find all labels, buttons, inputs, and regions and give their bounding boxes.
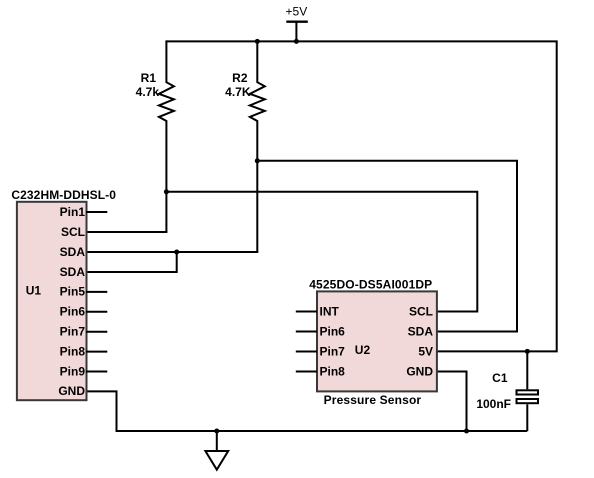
resistor R2 4.7K (with leads) [225, 40, 265, 252]
svg-text:Pin7: Pin7 [320, 344, 346, 358]
svg-text:SCL: SCL [61, 225, 85, 239]
IC U2 4525DO-DS5AI001DP pressure sensor [309, 278, 437, 407]
wire: U1 SCL pin to R1 bottom [86, 231, 167, 233]
node: junction second SDA tap [174, 250, 179, 255]
resistor R1 4.7k (with leads) [136, 40, 174, 232]
pin Pin8 (U2) [296, 364, 345, 378]
svg-text:Pin6: Pin6 [60, 305, 86, 319]
wire: +5V rail from R1 top across to right bus, down and into U2 5V pin [166, 41, 556, 351]
svg-text:Pin5: Pin5 [60, 285, 86, 299]
power symbol +5V [286, 5, 308, 42]
node: junction R2 top on rail [255, 39, 260, 44]
svg-text:Pin6: Pin6 [320, 324, 346, 338]
svg-text:+5V: +5V [286, 5, 308, 19]
svg-text:4.7K: 4.7K [225, 85, 251, 99]
svg-text:Pin8: Pin8 [320, 364, 346, 378]
IC U1 C232HM-DDHSL-0 [11, 188, 116, 400]
svg-text:C232HM-DDHSL-0: C232HM-DDHSL-0 [11, 188, 116, 202]
ground [205, 431, 228, 470]
svg-text:Pin1: Pin1 [60, 205, 86, 219]
svg-text:Pressure Sensor: Pressure Sensor [324, 393, 422, 407]
wire: U2 GND pin down to ground bus [437, 372, 467, 433]
pin Pin9 (U1) [60, 364, 108, 378]
capacitor C1 100nF [476, 351, 538, 431]
node: junction C1 top tap on 5V wire [525, 349, 530, 354]
node: junction +5V stub on rail [294, 39, 299, 44]
wire: SDA branch from R2 junction across and down to U2 SDA pin [257, 161, 517, 332]
svg-text:U1: U1 [26, 284, 42, 298]
pin Pin8 (U1) [60, 344, 108, 358]
svg-text:4.7k: 4.7k [136, 85, 160, 99]
pin Pin6 (U1) [60, 305, 108, 319]
svg-text:5V: 5V [418, 344, 433, 358]
svg-text:SDA: SDA [60, 265, 86, 279]
svg-text:SDA: SDA [408, 324, 434, 338]
pin Pin1 (U1) [60, 205, 108, 219]
svg-text:100nF: 100nF [476, 397, 511, 411]
pin INT (U2) [296, 304, 340, 318]
node: junction ground tap on ground bus [214, 429, 219, 434]
svg-text:Pin8: Pin8 [60, 344, 86, 358]
svg-text:R2: R2 [232, 71, 248, 85]
pin Pin7 (U2) [296, 344, 345, 358]
node: junction U2 GND on ground bus [464, 429, 469, 434]
svg-text:SCL: SCL [409, 304, 433, 318]
pin Pin5 (U1) [60, 285, 108, 299]
svg-text:GND: GND [58, 384, 85, 398]
wire: U1 second SDA pin up to SDA net [86, 251, 177, 272]
svg-text:Pin9: Pin9 [60, 364, 86, 378]
wire: ground bus from U1 GND pin down and across to C1 bottom [86, 391, 527, 431]
svg-text:U2: U2 [355, 343, 371, 357]
svg-text:INT: INT [320, 304, 340, 318]
node: junction on R2 leg at SDA branch [255, 158, 260, 163]
wire: SCL branch from R1 junction across and down to U2 SCL pin [166, 192, 477, 312]
svg-text:C1: C1 [492, 371, 508, 385]
svg-text:R1: R1 [141, 71, 157, 85]
pin Pin6 (U2) [296, 324, 345, 338]
node: junction on R1 leg at SCL branch [164, 189, 169, 194]
wire: U1 SDA pin to R2 bottom [86, 251, 258, 253]
svg-text:SDA: SDA [60, 245, 86, 259]
svg-text:4525DO-DS5AI001DP: 4525DO-DS5AI001DP [309, 278, 432, 292]
svg-text:GND: GND [406, 364, 433, 378]
pin Pin7 (U1) [60, 325, 108, 339]
svg-text:Pin7: Pin7 [60, 325, 86, 339]
